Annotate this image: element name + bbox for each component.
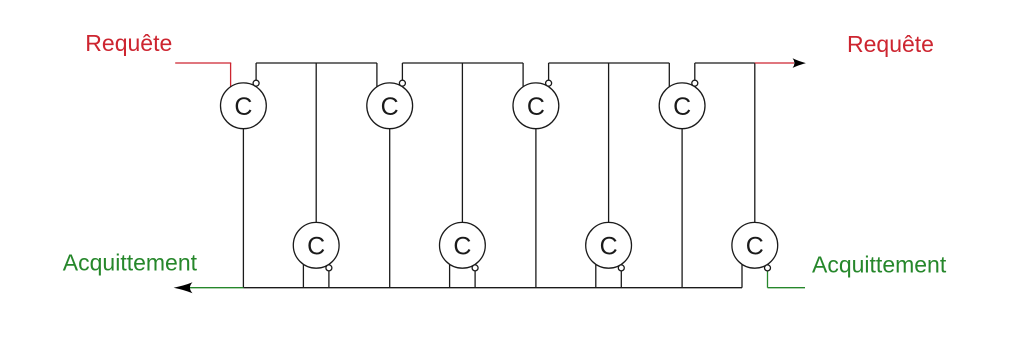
svg-text:C: C xyxy=(600,232,618,260)
svg-text:C: C xyxy=(746,232,764,260)
svg-text:C: C xyxy=(673,93,691,121)
svg-text:Requête: Requête xyxy=(847,31,934,57)
svg-text:C: C xyxy=(453,232,471,260)
svg-text:C: C xyxy=(234,93,252,121)
svg-text:C: C xyxy=(527,93,545,121)
svg-text:Acquittement: Acquittement xyxy=(812,252,947,278)
svg-text:C: C xyxy=(307,232,325,260)
svg-text:Requête: Requête xyxy=(85,30,172,56)
svg-text:Acquittement: Acquittement xyxy=(63,250,198,276)
svg-text:C: C xyxy=(381,93,399,121)
